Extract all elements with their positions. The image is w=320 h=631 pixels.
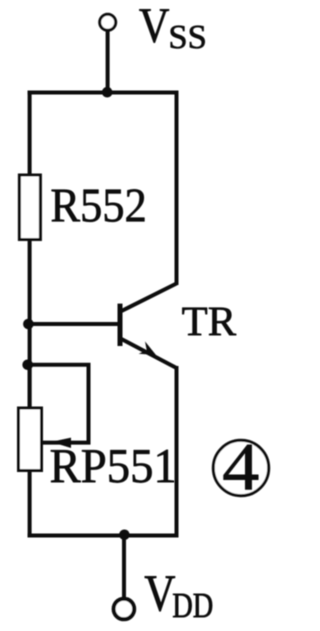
wire: pot top lead (wiper node to body) bbox=[28, 365, 32, 409]
wire: base wire to transistor bbox=[28, 322, 118, 326]
label V of VDD bbox=[145, 576, 175, 611]
label V of VSS bbox=[139, 9, 169, 42]
label SS subscript bbox=[171, 26, 205, 49]
node: top junction dot bbox=[102, 87, 113, 98]
wire: wiper loop right-down-left bbox=[28, 365, 89, 443]
circled number 4 ring bbox=[213, 440, 268, 495]
circled number 4 digit bbox=[224, 445, 259, 490]
wire: left vertical, R552 down to RP551 bbox=[28, 240, 32, 410]
label TR bbox=[182, 308, 236, 335]
node: base junction dot bbox=[23, 319, 34, 330]
wire: VSS terminal lead down to top rail bbox=[106, 30, 110, 94]
wire: bottom horizontal rail bbox=[28, 534, 179, 538]
potentiometer RP551 wiper arrow bbox=[47, 438, 71, 448]
label RP551 bbox=[51, 450, 174, 483]
node: wiper junction dot bbox=[22, 360, 33, 371]
wire: pot bottom lead to bottom rail bbox=[28, 470, 32, 538]
label R552 bbox=[52, 189, 145, 221]
label DD subscript bbox=[173, 594, 212, 617]
wire: right vertical, emitter to bottom rail bbox=[175, 366, 179, 538]
wire: left vertical, top rail to R552 bbox=[28, 91, 32, 178]
wire: right vertical, top rail to collector bbox=[175, 91, 179, 286]
terminal VDD (open circle) bbox=[114, 599, 135, 620]
wire: bottom node down to VDD terminal bbox=[122, 535, 126, 598]
wire: top horizontal rail bbox=[28, 91, 179, 95]
potentiometer RP551 body bbox=[19, 408, 42, 471]
transistor TR bbox=[120, 284, 177, 369]
terminal VSS (open circle) bbox=[100, 14, 116, 30]
node: bottom junction dot bbox=[119, 530, 130, 541]
resistor R552 body bbox=[19, 175, 40, 240]
